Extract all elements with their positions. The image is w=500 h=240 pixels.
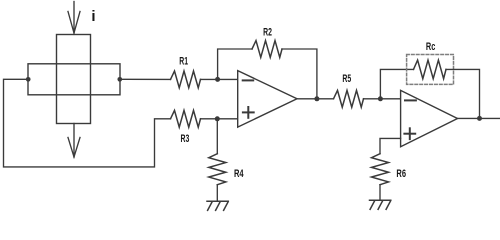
U2 plus symbol [404,128,415,139]
current arrow (bottom, out of sensor) [68,124,80,158]
op-amp U2 [401,90,458,146]
node: U2 output junction [477,116,482,121]
sensor element horizontal bar [28,64,120,95]
resistor R6 [372,154,389,185]
dashed compensation box around Rc [407,55,454,85]
svg-text:i: i [91,8,95,25]
wire: R3 to noninverting node [201,118,218,120]
svg-text:R1: R1 [179,56,188,68]
wire: feedback branch up from inverting node [218,49,252,79]
resistor R3 [171,110,201,127]
wire: noninverting node down to R4 [216,119,218,154]
wire: Rc to U2 output node [446,69,480,118]
svg-text:R3: R3 [181,133,190,145]
wire: R1 to inverting node [201,78,218,80]
node: U2 inverting input junction [378,96,383,101]
wire: sensor left terminal down and around to R3 [4,79,171,167]
ground (below R6) [370,200,391,209]
U1 plus symbol [243,107,254,118]
node: sensor left terminal [26,77,31,82]
U2 minus symbol [405,99,416,101]
svg-text:R2: R2 [263,26,272,38]
wire: R6 to ground [379,185,381,201]
svg-text:R6: R6 [396,168,406,180]
resistor R4 [209,154,226,185]
wire: U2 output to right edge [458,117,500,119]
wire: node to U1 minus input [218,78,238,80]
node: U1 inverting input junction [215,77,220,82]
node: U1 output junction [314,96,319,101]
wire: R4 to ground [216,185,218,202]
wire: U2 plus input to R6 [380,138,401,153]
wire: node to U1 plus input [217,118,237,120]
resistor R1 [171,71,201,88]
ground (below R4) [207,201,228,210]
wire: U1 output [297,98,334,100]
resistor Rc [414,60,447,79]
U1 minus symbol [243,79,254,81]
svg-text:R5: R5 [342,73,351,85]
svg-text:R4: R4 [234,168,244,180]
node: sensor right terminal [117,77,122,82]
wire: sensor right terminal to R1 [120,78,171,80]
wire: R5 to U2 inverting node [364,98,401,100]
wire: R2 to U1 output node [282,49,317,99]
sensor element vertical bar [57,35,91,124]
op-amp U1 [238,71,297,128]
node: U1 noninverting input junction [215,116,220,121]
resistor R2 [252,41,282,58]
wire: feedback branch up to Rc [380,69,413,98]
current arrow i (top, into sensor) [68,2,80,34]
resistor R5 [334,90,364,107]
svg-text:Rc: Rc [426,41,435,53]
